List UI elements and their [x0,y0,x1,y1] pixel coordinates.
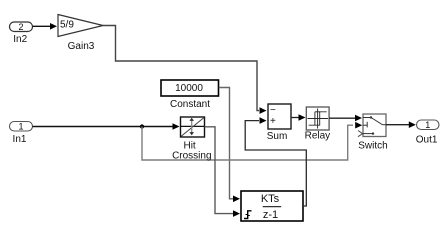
gain Gain3 [58,15,103,53]
svg-text:5/9: 5/9 [60,20,74,31]
wire In2 to Gain3 [33,23,58,30]
svg-text:Relay: Relay [305,131,331,142]
node junction on In1 wire [140,124,144,128]
svg-text:In2: In2 [13,34,27,45]
svg-text:Crossing: Crossing [172,151,211,162]
svg-text:Out1: Out1 [416,135,438,146]
svg-text:KTs: KTs [261,193,280,205]
wire Constant to integrator upper input [219,88,240,203]
wire Relay to Switch input 1 [329,115,362,122]
inport In1 [10,121,33,145]
svg-text:Constant: Constant [170,99,210,110]
switch block [358,114,388,152]
inport In2 [10,22,33,45]
svg-text:−: − [270,105,276,116]
sum block Sum [267,104,291,142]
wire Hit Crossing to integrator lower input [205,127,241,217]
wire Gain3 to Sum minus input [103,26,267,114]
svg-text:Switch: Switch [358,141,387,152]
svg-text:1: 1 [18,121,23,131]
relay block [305,107,331,142]
wire integrator output feedback to Sum plus input [245,117,306,206]
svg-text:2: 2 [18,22,23,32]
hit crossing block [172,117,211,162]
svg-text:+: + [270,116,276,127]
wire In1 to Hit Crossing [33,123,180,130]
discrete-time integrator block KTs/(z-1) [241,191,303,221]
svg-text:Sum: Sum [267,131,288,142]
svg-text:Gain3: Gain3 [68,41,95,52]
svg-text:In1: In1 [13,134,27,145]
constant block Constant [161,80,219,110]
wire Sum to Relay [291,114,306,121]
outport Out1 [416,120,439,146]
svg-text:1: 1 [425,120,430,130]
wire Switch to Out1 [386,121,416,128]
wire In1 branch to Switch control input [142,122,362,160]
svg-text:10000: 10000 [175,83,203,94]
svg-text:z-1: z-1 [263,209,278,221]
